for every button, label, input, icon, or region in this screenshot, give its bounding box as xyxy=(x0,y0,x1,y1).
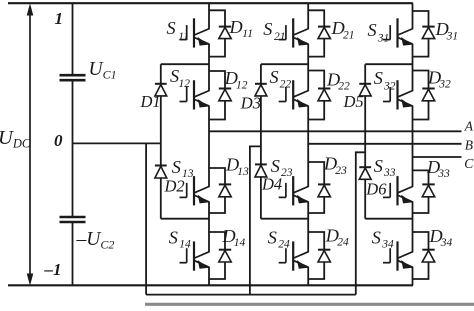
svg-text:31: 31 xyxy=(446,31,459,43)
IGBT S34 xyxy=(383,262,390,264)
diode D31 xyxy=(422,26,434,28)
svg-text:D: D xyxy=(229,17,243,37)
svg-text:11: 11 xyxy=(178,31,189,43)
wire clamp branch leg 3 xyxy=(364,64,366,84)
svg-text:22: 22 xyxy=(280,78,292,90)
diode D24 xyxy=(318,249,330,251)
diode D34 xyxy=(422,249,434,251)
svg-text:14: 14 xyxy=(179,238,191,250)
IGBT S13 xyxy=(180,196,187,198)
wire diode loop S23 xyxy=(308,162,324,184)
svg-text:B: B xyxy=(465,137,473,152)
clamp diode D4 xyxy=(255,163,267,165)
svg-text:1: 1 xyxy=(55,9,64,28)
wire diode loop S13 xyxy=(209,168,225,184)
wire diode loop S14 xyxy=(209,232,225,250)
svg-text:23: 23 xyxy=(281,167,293,179)
svg-text:S: S xyxy=(368,20,377,40)
svg-text:32: 32 xyxy=(383,81,396,93)
svg-text:S: S xyxy=(169,227,178,247)
svg-text:D2: D2 xyxy=(164,177,185,196)
svg-text:24: 24 xyxy=(278,238,290,250)
clamp diode D2 xyxy=(155,165,167,167)
svg-text:D4: D4 xyxy=(261,174,282,193)
svg-text:23: 23 xyxy=(335,165,347,177)
svg-text:D3: D3 xyxy=(240,93,261,112)
svg-text:A: A xyxy=(464,118,474,133)
wire leg 3 main vertical segments xyxy=(412,3,414,29)
diode D23 xyxy=(318,183,330,185)
IGBT S22 xyxy=(279,101,286,103)
wire diode loop S24 xyxy=(308,232,324,250)
wire junction S31/S32 to clamp xyxy=(365,63,412,65)
svg-text:32: 32 xyxy=(438,79,451,91)
wire neutral tap leg 2 xyxy=(250,146,261,294)
IGBT S31 xyxy=(383,39,390,41)
svg-text:22: 22 xyxy=(338,81,350,93)
wire diode loop S11 xyxy=(209,10,225,26)
svg-text:S: S xyxy=(374,156,383,176)
diode D32 xyxy=(422,88,434,90)
svg-text:D5: D5 xyxy=(343,92,364,111)
diode D12 xyxy=(219,88,231,90)
wire diode loop S32 xyxy=(413,71,429,89)
clamp diode D1 xyxy=(155,83,167,85)
capacitor C1 xyxy=(60,74,86,77)
svg-text:S: S xyxy=(374,68,383,88)
wire DC-link vertical xyxy=(72,3,74,75)
wire leg 1 main vertical segments xyxy=(208,3,210,29)
svg-text:S: S xyxy=(172,157,181,177)
capacitor C2 xyxy=(60,216,86,219)
diode D14 xyxy=(219,249,231,251)
wire junction S23/S24 to clamp xyxy=(261,218,308,220)
wire diode loop S34 xyxy=(413,232,429,250)
svg-text:11: 11 xyxy=(242,28,253,40)
diode D21 xyxy=(318,26,330,28)
wire leg 2 main vertical segments xyxy=(307,3,309,29)
wire clamp branch leg 1 xyxy=(160,64,162,84)
diode D22 xyxy=(318,88,330,90)
svg-text:21: 21 xyxy=(343,29,355,41)
wire diode loop S22 xyxy=(308,71,324,89)
svg-text:21: 21 xyxy=(274,31,286,43)
wire junction S21/S22 to clamp xyxy=(261,63,308,65)
svg-text:34: 34 xyxy=(440,237,453,249)
wire junction S11/S12 to clamp xyxy=(161,63,209,65)
wire clamp branch leg 2 xyxy=(260,64,262,84)
wire bottom DC rail (-1) xyxy=(8,284,413,286)
wire phase C line xyxy=(413,156,462,158)
clamp diode D5 xyxy=(359,83,371,85)
svg-text:24: 24 xyxy=(337,237,349,249)
wire neutral 0-bus xyxy=(73,142,161,144)
svg-text:12: 12 xyxy=(236,79,248,91)
svg-text:34: 34 xyxy=(381,238,394,250)
wire neutral bottom bus xyxy=(146,294,356,296)
IGBT S11 xyxy=(180,39,187,41)
svg-text:12: 12 xyxy=(179,78,191,90)
wire neutral tap leg 3 xyxy=(356,152,365,294)
svg-text:S: S xyxy=(268,227,277,247)
IGBT S23 xyxy=(279,196,286,198)
wire phase B line xyxy=(308,143,461,145)
svg-text:S: S xyxy=(167,18,176,38)
svg-text:S: S xyxy=(271,156,280,176)
IGBT S24 xyxy=(279,262,286,264)
svg-text:33: 33 xyxy=(437,168,450,180)
wire diode loop S21 xyxy=(308,10,324,26)
IGBT S32 xyxy=(383,101,390,103)
diode D11 xyxy=(219,26,231,28)
svg-text:13: 13 xyxy=(237,166,249,178)
wire neutral drop to bottom bus xyxy=(145,143,147,294)
diode D13 xyxy=(219,183,231,185)
svg-text:31: 31 xyxy=(377,32,390,44)
wire phase A line xyxy=(209,130,462,132)
svg-text:D6: D6 xyxy=(365,179,387,198)
wire junction S33/S34 to clamp xyxy=(365,218,412,220)
svg-text:D1: D1 xyxy=(140,92,161,111)
clamp diode D6 xyxy=(359,166,371,168)
wire junction S13/S14 to clamp xyxy=(161,218,209,220)
wire diode loop S31 xyxy=(413,11,429,27)
gray border band xyxy=(145,303,474,306)
voltage arrow U_DC xyxy=(29,13,31,276)
diode D33 xyxy=(422,183,434,185)
svg-text:33: 33 xyxy=(383,167,396,179)
svg-text:–1: –1 xyxy=(44,260,62,279)
IGBT S21 xyxy=(279,39,286,41)
IGBT S12 xyxy=(180,101,187,103)
svg-text:14: 14 xyxy=(234,237,246,249)
clamp diode D3 xyxy=(255,83,267,85)
IGBT S14 xyxy=(180,262,187,264)
svg-text:S: S xyxy=(372,227,381,247)
wire diode loop S12 xyxy=(209,71,225,89)
wire diode loop S33 xyxy=(413,170,429,184)
svg-text:0: 0 xyxy=(54,131,63,150)
svg-text:C: C xyxy=(464,156,474,171)
wire top DC rail (+1) xyxy=(8,2,413,4)
svg-text:S: S xyxy=(263,19,272,39)
svg-text:S: S xyxy=(270,67,279,87)
IGBT S33 xyxy=(383,196,390,198)
